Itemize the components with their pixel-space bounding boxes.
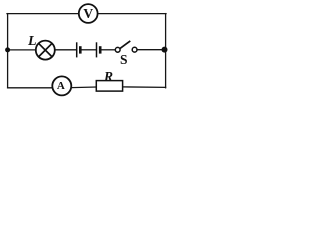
wire top-left horizontal [7, 13, 79, 15]
battery cell 1 negative plate [79, 46, 82, 53]
svg-text:A: A [57, 80, 65, 92]
resistor R body [96, 81, 122, 92]
svg-text:R: R [103, 69, 113, 84]
wire switch to right junction [137, 49, 162, 51]
lamp L circle [36, 41, 55, 60]
svg-text:V: V [83, 6, 93, 21]
wire top-right horizontal [98, 13, 166, 15]
voltmeter V1 circle [79, 4, 98, 23]
wire battery to switch [102, 49, 116, 51]
wire lamp to battery [55, 49, 76, 51]
battery cell 2 positive plate [96, 42, 98, 57]
wire right vertical [165, 14, 167, 88]
wire middle branch: junction to lamp [8, 49, 36, 51]
wire between battery cells [82, 49, 96, 51]
battery cell 2 negative plate [99, 46, 102, 53]
wire left vertical [7, 14, 9, 88]
junction node left [5, 47, 10, 52]
battery cell 1 positive plate [76, 42, 78, 57]
switch S lever [120, 41, 130, 49]
svg-text:S: S [120, 52, 128, 67]
junction node right [162, 47, 168, 53]
svg-text:L: L [27, 34, 37, 49]
switch S left contact circle [115, 47, 120, 52]
ammeter A1 circle [52, 76, 71, 95]
wire bottom left [8, 87, 52, 89]
wire bottom right [123, 86, 166, 89]
switch S right contact circle [132, 47, 137, 52]
lamp L cross [39, 43, 53, 57]
wire bottom middle (A to R) [72, 86, 96, 89]
